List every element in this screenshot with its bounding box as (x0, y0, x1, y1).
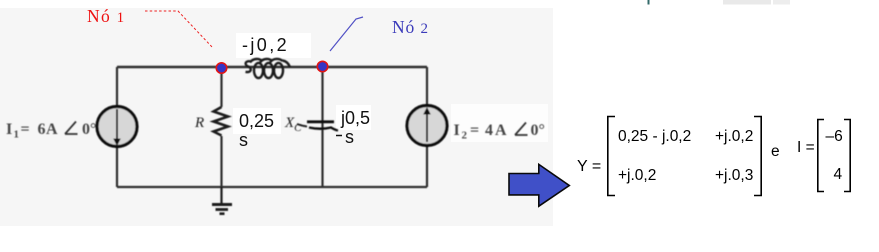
svg-text:s: s (239, 130, 248, 150)
svg-text:0,25 - j.0,2: 0,25 - j.0,2 (618, 128, 691, 145)
svg-text:I1=6A0°: I1=6A0° (6, 121, 96, 141)
svg-text:-j0,2: -j0,2 (242, 35, 289, 55)
svg-text:4: 4 (834, 166, 843, 183)
svg-text:R: R (194, 115, 204, 131)
svg-text:Y =: Y = (577, 158, 601, 175)
svg-text:j0,5: j0,5 (340, 108, 370, 128)
svg-text:0,25: 0,25 (239, 111, 274, 131)
svg-text:+j.0,2: +j.0,2 (715, 128, 753, 145)
svg-text:–6: –6 (826, 128, 843, 145)
svg-text:e: e (771, 143, 780, 160)
svg-text:+j.0,3: +j.0,3 (715, 167, 753, 184)
svg-text:+j.0,2: +j.0,2 (618, 167, 656, 184)
svg-text:s: s (345, 127, 354, 147)
svg-text:I =: I = (797, 139, 815, 156)
